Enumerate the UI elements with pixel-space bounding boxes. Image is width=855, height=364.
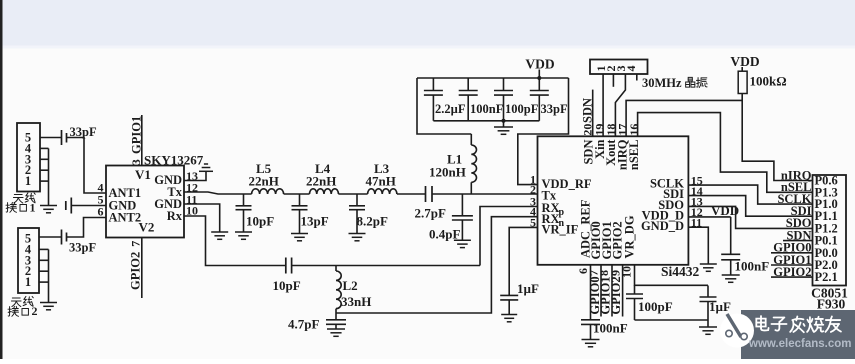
svg-text:GPIO1: GPIO1 xyxy=(130,116,144,154)
left dark border strip xyxy=(0,0,3,359)
wire VDD to R1 xyxy=(741,67,743,71)
svg-text:VR_DG: VR_DG xyxy=(622,215,636,258)
svg-text:4.7pF: 4.7pF xyxy=(288,317,319,332)
wire nSEL net xyxy=(638,113,813,193)
capacitor 2.7pF series C5 xyxy=(425,186,427,202)
svg-text:30MHz: 30MHz xyxy=(642,76,682,90)
capacitor 13pF shunt C3 xyxy=(299,194,301,206)
svg-text:VDD: VDD xyxy=(711,203,739,218)
ground (VDD bank) xyxy=(494,126,513,128)
svg-text:22nH: 22nH xyxy=(249,174,279,189)
label 天线 (J1) xyxy=(13,195,23,204)
watermark text 电子发烧友 xyxy=(756,316,768,330)
capacitor 1µF C11 xyxy=(707,286,709,298)
RF switch U1 SKY13267 body xyxy=(106,166,184,238)
watermark badge background xyxy=(741,310,855,359)
capacitor (SKY13267 GND pin5) xyxy=(65,201,67,210)
wire crystal pin2 stub xyxy=(612,74,614,87)
wire VDD rail left drop to L1 xyxy=(417,78,471,134)
connector J1 (antenna port 1) body xyxy=(17,123,40,192)
svg-text:10pF: 10pF xyxy=(246,214,274,229)
inductor L1 (VDD_RF choke) xyxy=(470,182,472,194)
wire GPIO1 stub (U2 pin8) xyxy=(611,265,613,317)
connector J2 (antenna port 2) body xyxy=(18,228,39,293)
wire RXp riser to Si4432 RXp xyxy=(480,207,538,266)
capacitor 100nF C9 (ADC_REF) xyxy=(581,319,600,321)
svg-text:Rx: Rx xyxy=(167,209,183,223)
watermark logo circle xyxy=(720,314,754,348)
svg-text:16: 16 xyxy=(627,124,641,136)
svg-text:4: 4 xyxy=(624,66,638,72)
capacitor 100nF C13 (VDD_D) xyxy=(730,217,732,254)
capacitor 10pF series C7 xyxy=(285,258,287,274)
svg-text:6: 6 xyxy=(98,205,104,219)
wire GPIO0 stub (U2 pin7) xyxy=(600,265,602,317)
wire GPIO1 net label stub xyxy=(771,264,813,266)
capacitor 100pF C10 xyxy=(634,285,636,294)
capacitor 100nF (VDD decoupling) xyxy=(467,78,469,91)
inductor L2 xyxy=(335,266,337,272)
wire SCLK net xyxy=(688,185,812,204)
ground (U1 pin11) xyxy=(211,231,228,233)
ground (C9) xyxy=(582,339,600,341)
capacitor 10pF shunt C2 xyxy=(243,194,245,206)
svg-text:P2.1: P2.1 xyxy=(815,270,838,284)
svg-text:GND_D: GND_D xyxy=(641,219,684,233)
svg-text:ANT2: ANT2 xyxy=(109,211,142,225)
svg-text:1: 1 xyxy=(25,275,31,289)
capacitor 33pF (ant1 series) xyxy=(61,130,63,145)
svg-text:0.4pF: 0.4pF xyxy=(429,227,460,242)
crystal Y1 body (30MHz) xyxy=(590,60,648,75)
ground (C3) xyxy=(291,233,308,235)
wire VDD_D to 100nF xyxy=(688,216,730,218)
inductor L5 xyxy=(252,189,284,194)
wire VDD rail xyxy=(417,77,569,79)
capacitor 8.2pF shunt C4 xyxy=(356,194,358,206)
wire VDD bank bottom rail xyxy=(433,120,539,122)
wire SDN net label stub xyxy=(783,240,813,242)
svg-text:Si4432: Si4432 xyxy=(661,264,700,279)
ground (J1) xyxy=(40,205,57,207)
wire crystal pin4 stub xyxy=(636,74,638,81)
wire SDI net xyxy=(688,196,812,217)
wire VR_IF to C12 xyxy=(509,227,537,295)
wire J2 pin5 to C-ant2 xyxy=(39,236,62,238)
wire J1 ground bus xyxy=(48,148,50,205)
svg-text:13pF: 13pF xyxy=(301,214,329,229)
svg-text:V1: V1 xyxy=(135,167,151,182)
wire VR_DG down/right rail xyxy=(635,265,709,286)
svg-text:1: 1 xyxy=(25,174,31,188)
svg-text:2.2µF: 2.2µF xyxy=(435,102,466,116)
wire C7 to RXp riser xyxy=(292,265,480,267)
wire VDD rail right drop to VDD_RF xyxy=(518,78,569,185)
wire GPIO1 stub (U1 pin3) xyxy=(141,115,143,166)
svg-text:SDN: SDN xyxy=(581,98,595,123)
wire J1 ground pin stub xyxy=(40,147,49,149)
wire nIRQ net xyxy=(626,100,742,136)
wire GPIO2 stub (U2 pin9) xyxy=(622,265,624,317)
ground (C8) xyxy=(327,328,345,330)
wire J1 ground pin stub xyxy=(40,180,49,182)
svg-text:www.elecfans.com: www.elecfans.com xyxy=(748,338,851,350)
wire GPIO0 net label stub xyxy=(771,252,813,254)
wire crystal pin1 to Xin xyxy=(602,74,604,136)
svg-text:L2: L2 xyxy=(343,278,358,293)
svg-text:22nH: 22nH xyxy=(306,174,336,189)
svg-text:100pF: 100pF xyxy=(638,299,673,314)
wire C10 bottom rail xyxy=(635,319,709,321)
wire crystal pin3 to Xout xyxy=(615,74,625,136)
wire J2 ground pin stub xyxy=(39,248,49,250)
svg-text:1µF: 1µF xyxy=(709,299,731,314)
ground (C11) xyxy=(699,326,717,328)
capacitor 2.2µF (VDD decoupling) xyxy=(432,78,434,91)
svg-text:GPIO2: GPIO2 xyxy=(129,252,143,290)
wire GPIO2 stub (U1 pin7) xyxy=(141,238,143,299)
svg-text:F930: F930 xyxy=(817,297,846,312)
svg-text:33pF: 33pF xyxy=(541,102,568,116)
mcu U3 C8051F930 body xyxy=(813,175,847,286)
wire L2 bottom to Si4432 RXn xyxy=(336,217,538,313)
wire J2 ground pin stub xyxy=(39,281,49,283)
svg-text:GPIO2: GPIO2 xyxy=(773,265,811,279)
top banner band xyxy=(0,0,855,46)
wire cap to SKY13267 GND pin5 xyxy=(71,205,106,207)
label 天线 (J2) xyxy=(11,298,21,307)
wire ADC_REF to C9 xyxy=(590,265,592,320)
capacitor 0.4pF shunt C6 xyxy=(461,194,463,216)
ground (C6) xyxy=(454,239,471,241)
label 接口1 (J1) xyxy=(6,202,17,212)
svg-text:120nH: 120nH xyxy=(429,165,466,180)
svg-text:VDD: VDD xyxy=(525,57,554,72)
wire C-ant2 to SKY13267 ANT2 xyxy=(67,218,107,238)
ground (C2) xyxy=(235,231,252,233)
svg-text:47nH: 47nH xyxy=(366,174,396,189)
wire J2 ground pin stub xyxy=(39,259,49,261)
wire J2 ground bus xyxy=(48,249,50,302)
capacitor 100pF (VDD decoupling) xyxy=(503,78,505,91)
inductor L4 xyxy=(310,189,339,194)
wire U1 pin10 Rx down/right xyxy=(184,216,286,266)
svg-text:8.2pF: 8.2pF xyxy=(357,214,388,229)
svg-text:1: 1 xyxy=(30,201,36,215)
inductor L3 xyxy=(368,189,397,194)
capacitor 33pF (VDD decoupling) xyxy=(538,78,540,91)
wire J1 ground pin stub xyxy=(40,169,49,171)
wire J1 ground pin stub xyxy=(40,158,49,160)
wire Tx line (U1 pin12 to Si4432 Tx) xyxy=(184,192,252,194)
capacitor 4.7pF C8 xyxy=(335,313,337,320)
wire J2 ground pin stub xyxy=(39,270,49,272)
svg-text:VR_IF: VR_IF xyxy=(542,223,579,237)
svg-text:1µF: 1µF xyxy=(517,281,539,296)
svg-text:33pF: 33pF xyxy=(69,241,96,255)
svg-text:100kΩ: 100kΩ xyxy=(750,74,787,89)
resistor R1 100kΩ xyxy=(738,71,747,93)
svg-text:100pF: 100pF xyxy=(505,102,539,116)
svg-text:2: 2 xyxy=(32,304,38,318)
ground (C13) xyxy=(722,274,740,276)
wire U1 pin11 to ground xyxy=(184,204,220,232)
svg-text:100nF: 100nF xyxy=(470,102,504,116)
wire GPIO2 net label stub xyxy=(771,276,813,278)
svg-text:3: 3 xyxy=(129,159,143,165)
ground (U1 pin13, inverted) xyxy=(199,170,213,172)
junction dot (VDD) xyxy=(537,76,541,80)
wire J1 pin5 to C-ant1 xyxy=(40,137,62,139)
wire VDD label stub xyxy=(538,70,540,79)
svg-text:VDD: VDD xyxy=(730,54,759,69)
svg-text:7: 7 xyxy=(129,241,143,247)
ground (C4) xyxy=(349,233,366,235)
ground (GND_D) xyxy=(700,263,717,265)
ground (J2) xyxy=(40,302,57,304)
wire C-ant1 to SKY13267 ANT1 xyxy=(67,138,107,194)
wire SDN stub (U2 pin20) xyxy=(592,90,594,137)
label 接口2 (J2) xyxy=(8,306,19,316)
wire GND_D to ground xyxy=(688,227,708,264)
ground (C12) xyxy=(501,314,517,316)
junction dot (bank ground) xyxy=(502,119,506,123)
wire SDO net xyxy=(688,206,812,228)
transceiver U2 Si4432 body xyxy=(538,136,689,264)
capacitor 1µF C12 (VR_IF) xyxy=(500,294,518,296)
wire U1 pin13 to ground xyxy=(184,171,206,180)
svg-text:2.7pF: 2.7pF xyxy=(415,206,446,221)
wire bank ground stub xyxy=(503,121,505,127)
svg-text:10pF: 10pF xyxy=(273,278,301,293)
svg-text:10: 10 xyxy=(620,266,634,278)
svg-text:nSEL: nSEL xyxy=(627,140,641,171)
capacitor 33pF (ant2 series) xyxy=(61,230,63,245)
svg-text:100nF: 100nF xyxy=(593,321,628,336)
svg-text:33nH: 33nH xyxy=(341,294,371,309)
svg-text:100nF: 100nF xyxy=(735,259,770,274)
